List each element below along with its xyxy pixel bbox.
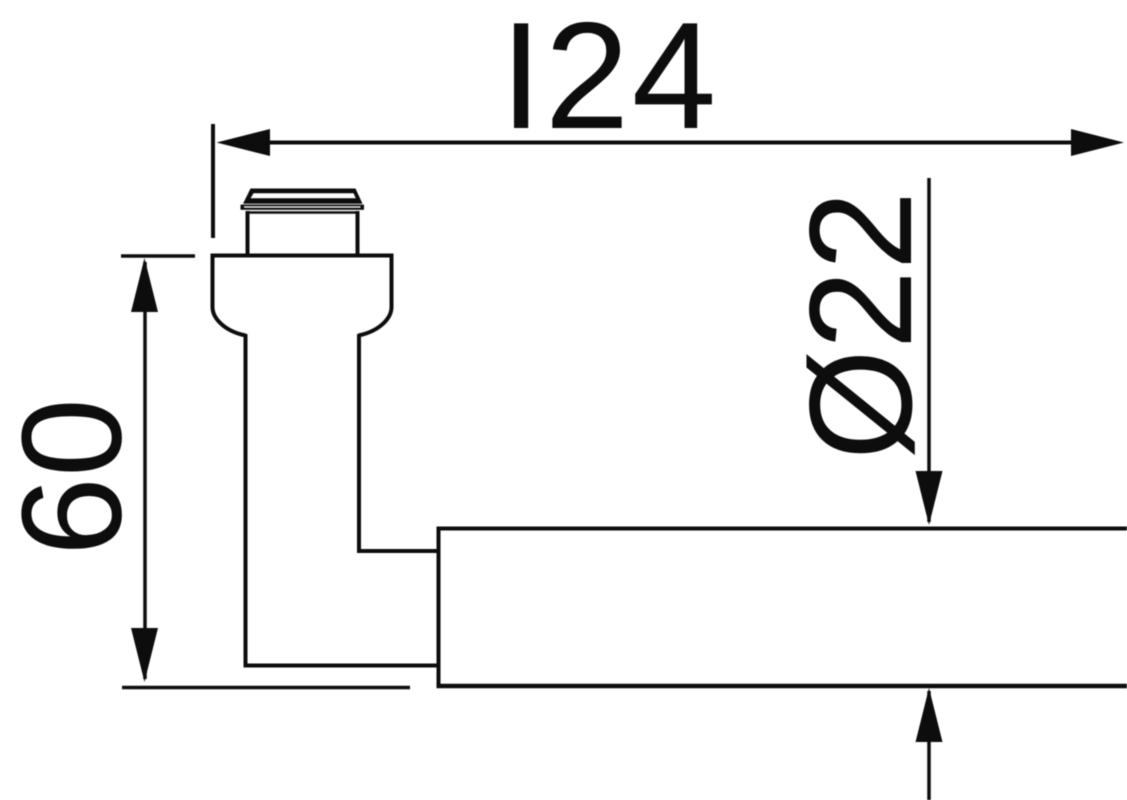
arrowhead 124 right bbox=[1071, 129, 1124, 156]
rosette collar left side and fillet into neck bbox=[213, 254, 246, 336]
arrowhead Ø22 up onto bar bottom bbox=[916, 688, 943, 742]
arrowhead 124 left bbox=[217, 129, 271, 156]
extension line 60 bottom bbox=[122, 686, 410, 690]
grip bar top edge bbox=[437, 527, 1127, 531]
handle cap rim band bbox=[241, 205, 365, 210]
extension line 124 left bbox=[211, 124, 215, 238]
handle cap cylinder top line bbox=[249, 211, 356, 214]
handle cap cylinder left side bbox=[246, 211, 250, 254]
svg-text:Ø22: Ø22 bbox=[779, 191, 942, 460]
arrowhead 60 bottom bbox=[131, 628, 158, 682]
svg-text:60: 60 bbox=[0, 398, 152, 556]
dimension leader line Ø22 upper bbox=[927, 178, 931, 522]
extension line 60 top bbox=[121, 254, 195, 258]
dimension line 124 bbox=[245, 141, 1095, 145]
grip bar bottom edge bbox=[437, 684, 1127, 688]
neck to bar connector line bbox=[357, 549, 440, 553]
arrowhead 60 top bbox=[131, 258, 158, 312]
handle cap rim inner white line bbox=[244, 206, 361, 207]
handle cap dome bbox=[243, 189, 363, 204]
grip bar left edge bbox=[437, 527, 441, 688]
svg-text:I24: I24 bbox=[500, 0, 719, 161]
arrowhead Ø22 down onto bar top bbox=[916, 471, 943, 525]
neck right side bbox=[357, 334, 361, 553]
rosette collar right side and fillet into neck bbox=[359, 254, 392, 336]
rosette collar top edge bbox=[211, 254, 394, 258]
dimension line 60 bbox=[143, 262, 147, 679]
neck bottom edge bbox=[244, 664, 441, 668]
handle cap cylinder right side bbox=[356, 211, 360, 254]
handle cap dome inner white line bbox=[251, 193, 356, 198]
neck left side bbox=[244, 334, 248, 667]
dimension leader line Ø22 lower bbox=[927, 691, 931, 800]
